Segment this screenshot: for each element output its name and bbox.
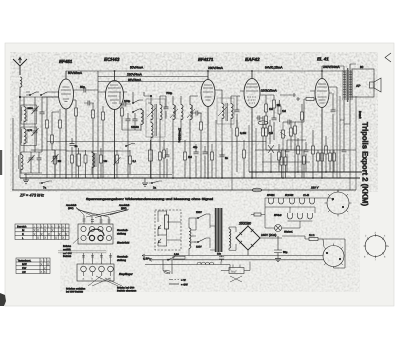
electrolytic cap 50+50: [274, 236, 288, 256]
IF coil pair L6: [173, 103, 176, 121]
right resistor Rj: [297, 138, 300, 172]
power supply dashed box: [155, 210, 181, 250]
T2 trim cap C14: [235, 96, 240, 128]
svg-text:94V/0,25mA: 94V/0,25mA: [265, 66, 283, 70]
svg-text:Anschluß: Anschluß: [119, 204, 130, 207]
resistor cluster Rm: [280, 150, 283, 178]
svg-text:EF4171: EF4171: [198, 57, 214, 62]
ballast resistor in box: [165, 211, 169, 235]
cathode cap C18: [331, 93, 336, 178]
speaker symbol: [370, 78, 382, 92]
pinout diagram circle: [364, 232, 390, 262]
bridge output wires: [240, 222, 282, 256]
svg-text:230V/4mA: 230V/4mA: [127, 73, 143, 77]
bridge rectifier: [236, 226, 260, 250]
fuse oval on bus: [252, 188, 262, 192]
svg-text:EAF42: EAF42: [245, 57, 260, 62]
row2 rail: [288, 221, 313, 228]
resistor R2: [51, 112, 60, 150]
antenna: [13, 58, 27, 76]
right mid bus: [249, 171, 362, 173]
plus mark 2: [296, 97, 300, 101]
secondary winding: [229, 227, 231, 250]
svg-text:1k Ω: 1k Ω: [309, 234, 314, 237]
IF transformer T1 right winding: [160, 103, 162, 123]
svg-text:50V/4mA: 50V/4mA: [130, 66, 144, 70]
coil can box 1: [21, 105, 37, 124]
scan artifact left bottom: [0, 293, 6, 306]
wires to ground bus: [21, 152, 42, 177]
svg-text:EF4x8: EF4x8: [274, 214, 282, 217]
trimmer pair C6: [52, 150, 59, 178]
IF transformer T1 left winding: [151, 103, 153, 139]
wire avc long: [266, 122, 302, 150]
electrolytic Cv: [77, 148, 81, 178]
right resistor Rf: [262, 122, 265, 172]
right resistor Ri: [290, 120, 293, 150]
wave switch S1b: [40, 92, 50, 96]
filament V7f: [298, 213, 303, 219]
svg-text:6800: 6800: [28, 107, 34, 110]
var resistor Rx: [114, 150, 121, 178]
grid resistor R6: [102, 106, 105, 178]
mains switch below: [163, 260, 172, 274]
transformer top wires: [322, 64, 356, 71]
socket wrap wires: [323, 239, 345, 268]
svg-text:CL41: CL41: [303, 194, 310, 197]
svg-text:2M: 2M: [188, 155, 193, 159]
upper connector block: [78, 224, 113, 244]
filament V6f: [288, 213, 293, 219]
mains rail 3: [145, 264, 230, 266]
series resistor heater: [251, 213, 265, 216]
detector wire from V4: [260, 95, 266, 104]
socket circle bottom: [323, 244, 344, 267]
svg-text:2a: 2a: [153, 186, 157, 190]
wire 240V to 1k: [282, 236, 309, 239]
svg-text:700p: 700p: [166, 91, 173, 95]
tube V4 EAF42: [240, 71, 263, 178]
svg-text:240V/24mA: 240V/24mA: [323, 65, 341, 69]
legend dashed: [169, 279, 188, 287]
grid wire V5: [302, 99, 304, 122]
svg-text:Empfänger: Empfänger: [119, 272, 134, 276]
resistor Rt: [54, 150, 62, 178]
filament V4f: [300, 198, 305, 204]
switch on rail2: [167, 257, 175, 261]
svg-text:EF451: EF451: [59, 59, 73, 64]
interference cap block: [221, 265, 250, 283]
heater mid rail: [265, 198, 315, 228]
IF transformer T2 left winding: [222, 102, 224, 121]
ground sym left: [23, 180, 29, 183]
switch 2a on bus: [149, 181, 162, 190]
switch 7a on bus: [39, 181, 52, 190]
voltage selector switch bottom: [194, 238, 210, 249]
svg-text:100p: 100p: [124, 99, 131, 103]
IF transformer T1 core: [155, 104, 157, 136]
filament V2f: [279, 198, 284, 204]
ground bus main: [20, 177, 360, 179]
svg-text:ECH43: ECH43: [104, 57, 120, 63]
right bus y150: [255, 149, 356, 151]
IFT1 shield can: [146, 99, 165, 137]
wire connectors top: [83, 215, 111, 224]
screen cap C13: [192, 111, 202, 116]
AVC line: [47, 141, 266, 143]
lower padder C5: [37, 152, 42, 173]
mains rail 1: [142, 255, 324, 257]
resistor R1: [46, 97, 49, 178]
primary taps: [189, 214, 210, 255]
left mid bus y174: [24, 174, 172, 176]
svg-text:ZF = 473 kHz: ZF = 473 kHz: [19, 193, 44, 198]
left rail: [12, 118, 14, 190]
padder capacitor C2: [40, 106, 45, 120]
svg-text:50µF: 50µF: [231, 270, 237, 273]
bus vertical at 98: [97, 71, 99, 178]
svg-text:EL 41: EL 41: [317, 57, 329, 62]
mid band cap Ca: [165, 148, 170, 178]
coil frame wires: [24, 97, 42, 152]
table 2: [16, 258, 50, 274]
tube V2 ECH42: [98, 71, 127, 178]
right resistor Rk: [312, 130, 315, 178]
svg-text:2M: 2M: [277, 103, 282, 107]
wave switch S1a: [26, 92, 39, 96]
decoupling cap C8: [84, 101, 94, 106]
ground symbol mid: [142, 178, 148, 186]
trimmer capacitor C1: [32, 103, 39, 117]
input band coil L2 (MW): [22, 105, 28, 124]
svg-text:230V/4mA: 230V/4mA: [208, 66, 224, 70]
L6 wires: [173, 96, 181, 178]
filament V8f: [308, 213, 313, 219]
primary winding: [189, 226, 191, 250]
ava cap C15: [256, 116, 263, 121]
mid band resistor Rb: [184, 140, 193, 178]
svg-text:EF451: EF451: [267, 194, 275, 197]
svg-text:220kΩ/2mA: 220kΩ/2mA: [261, 89, 277, 93]
avc cap C16: [272, 116, 277, 128]
mid band resistor Rc: [211, 144, 214, 178]
switch Sb: [125, 144, 135, 147]
svg-text:110V: 110V: [196, 246, 202, 249]
svg-text:6,3V~: 6,3V~: [143, 257, 151, 261]
variable capacitor C3 with arrow: [32, 125, 39, 139]
resistor Rv: [84, 150, 87, 178]
IF transformer T2 core: [226, 103, 228, 121]
svg-text:LW: LW: [22, 271, 26, 274]
resistor Rz1: [149, 140, 153, 178]
wire heater to socket: [315, 198, 333, 201]
wires under mains: [221, 262, 250, 271]
svg-text:überbrückt: überbrückt: [117, 242, 130, 245]
output transformer T3 windings: [343, 70, 352, 100]
right vertical wires: [340, 96, 356, 190]
svg-text:40p: 40p: [193, 146, 198, 149]
T2 tuning arrow: [218, 107, 227, 116]
pointer line note: [73, 238, 79, 244]
svg-text:0,8A: 0,8A: [174, 253, 179, 256]
plus mark 1: [292, 93, 296, 97]
svg-text:bei GW-Betrieb: bei GW-Betrieb: [66, 291, 84, 294]
filament V1f: [269, 198, 274, 204]
speaker box: [352, 69, 374, 97]
diode arrow 2: [158, 239, 161, 246]
T2 wires: [222, 96, 238, 178]
input band coil L3 (LW): [22, 127, 28, 146]
top bus line 3: [98, 81, 205, 83]
antenna coupling coil L1: [20, 77, 22, 87]
power transformer core: [215, 208, 223, 252]
resistor R5: [92, 103, 95, 178]
cap Cz2: [203, 146, 208, 178]
IFT2 shield can: [217, 98, 234, 124]
cap on rails: [217, 253, 224, 262]
filament V5f: [310, 198, 315, 204]
svg-text:220V: 220V: [196, 211, 202, 214]
svg-text:50µ: 50µ: [283, 251, 288, 254]
choke coil on rail3: [197, 262, 214, 264]
osc resistor R7: [121, 104, 124, 130]
coupling cap C17: [283, 120, 296, 125]
wires into lower block: [84, 253, 111, 264]
osc section wires: [120, 92, 141, 178]
mid band resistor Rd: [236, 120, 247, 172]
crossing pointer lines lower: [88, 276, 122, 286]
T1 wires: [144, 92, 166, 178]
svg-text:Brandt: Brandt: [358, 111, 362, 119]
coil can box 2: [21, 127, 37, 146]
socket circle top right: [325, 190, 352, 217]
resistor row Rs: [333, 150, 336, 172]
svg-text:stellung: stellung: [117, 232, 126, 235]
filament V3f: [290, 198, 295, 204]
avc resistor R12: [273, 96, 276, 116]
right resistor Rl: [325, 136, 328, 172]
cap Cz1: [193, 144, 199, 178]
resistor R8: [198, 113, 203, 178]
tone switch X: [268, 145, 274, 172]
screen wire: [329, 87, 337, 178]
resistor Ru: [71, 152, 74, 178]
tube V1 EF451: [59, 71, 74, 178]
volume pot R13: [280, 122, 286, 178]
lower trimmer C4: [28, 152, 35, 173]
svg-text:Betrieb: Betrieb: [63, 255, 72, 258]
diode load wires: [238, 71, 274, 96]
right cap Ce: [342, 120, 347, 172]
anode wire V3: [215, 90, 222, 100]
output transformer core: [346, 68, 349, 102]
cap 2n: [70, 138, 78, 152]
node dots on buses: [19, 70, 327, 179]
svg-text:95V/4mA: 95V/4mA: [128, 78, 142, 82]
coupling capacitor C7: [73, 85, 98, 93]
svg-text:ECH42: ECH42: [285, 194, 294, 197]
resistor cluster Ro: [303, 150, 306, 178]
svg-text:1M: 1M: [269, 107, 274, 111]
tube V3 EF4171: [201, 71, 215, 178]
svg-text:240V (2Ω±): 240V (2Ω±): [261, 233, 276, 237]
svg-text:2M: 2M: [58, 160, 62, 163]
svg-text:80: 80: [360, 65, 364, 69]
resistor cluster Rn: [284, 150, 287, 178]
resistor R14: [294, 122, 297, 178]
lower connector block: [77, 264, 114, 281]
table 1: [15, 224, 69, 240]
voltage selector switch top: [194, 211, 210, 219]
padding cap C10: [126, 113, 131, 130]
pot oval: [258, 116, 268, 128]
resistor R15: [301, 104, 304, 178]
grid stopper R16: [304, 91, 317, 101]
svg-text:15040: 15040: [131, 125, 139, 129]
svg-text:Skalenl.: Skalenl.: [284, 231, 293, 234]
svg-text:Spannungsangaben: Widerstandsm: Spannungsangaben: Widerstandsmessung und…: [86, 197, 213, 201]
right cap Cd: [304, 142, 309, 172]
wire antenna down to ground bus: [19, 87, 21, 178]
detector resistor R10: [265, 116, 268, 128]
IF coil pair L7: [181, 103, 183, 121]
svg-text:1M: 1M: [104, 160, 108, 163]
svg-text:50V±5mA: 50V±5mA: [68, 71, 83, 75]
svg-text:7a: 7a: [43, 186, 47, 190]
mid band resistor Re: [243, 140, 246, 178]
right bus y162: [262, 161, 310, 163]
right resistor Rg: [269, 120, 272, 144]
diode arrow 1: [158, 225, 161, 236]
svg-text:(GW): (GW): [68, 207, 74, 210]
cap C12: [164, 96, 169, 119]
node A: [19, 96, 21, 98]
wire input top row: [20, 92, 59, 97]
svg-text:= W: = W: [181, 279, 186, 282]
svg-text:230 V: 230 V: [310, 186, 319, 190]
grid wire into V1: [42, 96, 59, 98]
resistor Ry: [129, 150, 137, 174]
resistor row Rr: [329, 150, 332, 172]
T1 tuning arrow: [147, 108, 156, 117]
screen resistor R3: [73, 100, 78, 178]
transformer bottom wires: [340, 100, 350, 124]
MAIN SCHEMATIC GROUP: [0, 53, 391, 306]
svg-text:AP: AP: [356, 84, 361, 88]
svg-text:KW: KW: [22, 267, 27, 270]
socket top wire to bus: [337, 190, 339, 192]
top bus line 2: [98, 76, 208, 78]
svg-text:5n: 5n: [225, 156, 229, 160]
padding cap C11: [133, 113, 138, 130]
detector resistor R11: [265, 128, 268, 142]
mains rail 2: [149, 259, 324, 261]
extra verticals mid: [216, 120, 256, 190]
osc switch S2: [132, 100, 143, 104]
rail end arrows: [142, 254, 152, 261]
osc switch S3: [132, 109, 142, 113]
L8 tuning arrow: [187, 109, 195, 118]
fan wires upper block: [76, 207, 129, 218]
IF coil L8: [190, 103, 193, 121]
svg-text:Tripolis Export 2 (KKM): Tripolis Export 2 (KKM): [361, 122, 370, 206]
aux line y151: [66, 150, 130, 152]
tube V5 CL41: [310, 71, 332, 178]
detector resistor R9: [265, 104, 268, 116]
svg-text:ZF=464kHz: ZF=464kHz: [178, 128, 182, 143]
cathode resistor R4: [59, 109, 62, 178]
mid band resistor Ra: [159, 140, 162, 178]
node dot: [150, 95, 152, 97]
L8 wires: [190, 96, 198, 178]
AF choke: [92, 151, 96, 175]
svg-text:50p: 50p: [80, 85, 85, 89]
heater top rail: [265, 197, 327, 199]
lower bus: [12, 189, 356, 191]
fuse on rail: [173, 253, 185, 259]
top bus line 1: [66, 70, 344, 72]
svg-text:MW: MW: [22, 263, 27, 266]
resistor row Rq: [321, 150, 324, 172]
svg-text:Anschluß: Anschluß: [66, 204, 77, 207]
secondary connects: [210, 226, 236, 250]
svg-text:Tastenkont.: Tastenkont.: [18, 259, 32, 262]
svg-text:= GW: = GW: [181, 283, 188, 286]
resistor 1k: [309, 234, 323, 241]
resistor row Rp: [317, 150, 320, 172]
dial lamp: [265, 225, 300, 234]
resistor Rz2: [163, 140, 166, 178]
svg-text:Betrieb einsetzen: Betrieb einsetzen: [117, 290, 137, 293]
svg-text:0,70: 0,70: [28, 129, 33, 132]
svg-text:0,1: 0,1: [133, 160, 137, 163]
L6 tuning arrow: [170, 109, 178, 118]
box wires: [158, 211, 181, 246]
lower band coil L4: [19, 152, 23, 174]
divider rails: [58, 251, 106, 253]
svg-text:10n: 10n: [217, 253, 222, 256]
mid band cap Cb: [220, 148, 229, 178]
svg-text:stellung: stellung: [117, 259, 126, 262]
right cap Cc: [285, 140, 290, 172]
wire horiz 150: [31, 140, 306, 150]
osc grid cap C9: [120, 102, 131, 107]
svg-text:0,3M: 0,3M: [240, 131, 247, 135]
IF transformer T2 right winding: [231, 102, 233, 121]
fold mark triangle: [385, 53, 391, 62]
resistor R1M second column: [278, 100, 287, 122]
avc bus wire: [266, 95, 292, 150]
right resistor Rh: [278, 144, 281, 172]
osc coil L5: [141, 108, 144, 131]
resistor Rw: [100, 148, 108, 178]
scan artifact left mid: [0, 150, 2, 175]
ground electrolytic: [275, 256, 281, 262]
scanned paper area: [5, 43, 394, 306]
svg-text:1M: 1M: [282, 109, 287, 113]
